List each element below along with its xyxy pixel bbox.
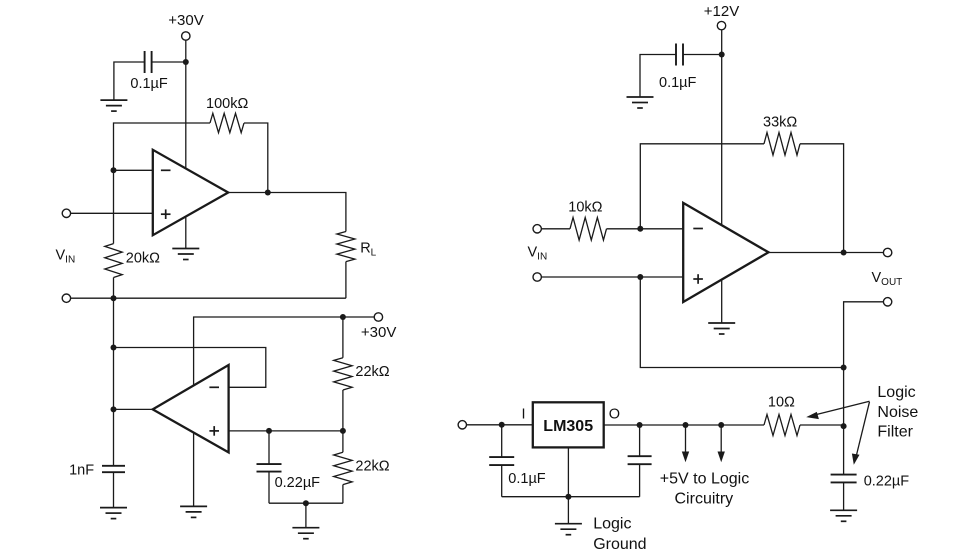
label 0.22uF (left) — [275, 475, 321, 491]
junction +5V arrow 1 — [683, 422, 689, 428]
minus sign A1 — [161, 169, 171, 171]
svg-text:+30V: +30V — [168, 12, 203, 29]
wire A2 output to left vertical — [114, 408, 153, 410]
terminal +30V (A2 supply) — [374, 313, 382, 321]
svg-text:O: O — [609, 407, 620, 423]
label +30V (A2 supply) — [361, 324, 396, 341]
svg-text:Logic: Logic — [593, 515, 631, 532]
junction non-inverting input A3 — [637, 274, 643, 280]
ground (op-amp A1) — [172, 249, 199, 260]
capacitor 0.22uF (left) — [257, 464, 282, 472]
wire feedback 33k right — [800, 144, 844, 253]
label 33kOhm — [763, 114, 797, 130]
minus sign A3 — [693, 228, 703, 230]
label 100kOhm — [206, 96, 248, 112]
wire bottom rail (left) — [71, 297, 346, 299]
junction output cap tap — [637, 422, 643, 428]
svg-text:+30V: +30V — [361, 324, 396, 341]
svg-text:Logic: Logic — [877, 384, 915, 401]
ground (filter cap) — [830, 510, 857, 521]
label 10kOhm — [568, 199, 602, 215]
wire bypass branch (right) — [640, 55, 722, 98]
svg-text:10Ω: 10Ω — [768, 394, 795, 410]
node +30V (left supply) — [168, 12, 203, 29]
junction ground rail — [565, 494, 571, 500]
wire +30V supply rail down to op-amp A1 — [185, 40, 187, 248]
svg-text:22kΩ: 22kΩ — [355, 459, 389, 475]
arrow +5V feed 2 — [718, 425, 725, 462]
wire 10k input left lead — [541, 228, 570, 230]
arrow +5V feed 1 — [682, 425, 689, 462]
svg-text:Filter: Filter — [877, 424, 913, 441]
resistor 33k — [764, 133, 800, 156]
capacitor 1nF — [102, 466, 125, 472]
wire regulator bottom rail — [502, 496, 640, 498]
terminal VOUT lower — [883, 298, 891, 306]
wire 0.22uF filter branch — [843, 426, 845, 510]
wire 1nF to ground — [113, 472, 115, 507]
pin label I — [522, 406, 526, 422]
junction +30V / 22k — [340, 314, 346, 320]
svg-text:22kΩ: 22kΩ — [355, 364, 389, 380]
ground (logic ground) — [555, 524, 582, 535]
label 0.1uF (regulator input) — [508, 471, 546, 487]
wire +12V supply down to op-amp A3 — [721, 30, 723, 323]
label 20kOhm — [126, 250, 160, 266]
wire input cap branch — [501, 425, 503, 497]
wire non-inverting input A1 — [71, 212, 153, 214]
wire non-inverting input A3 — [541, 276, 683, 278]
label RL — [360, 240, 376, 258]
wire +30V feed A2 — [194, 317, 375, 506]
ground (op-amp A3) — [708, 323, 735, 334]
junction inverting input A3 — [637, 226, 643, 232]
label +5V to Logic Circuitry — [660, 470, 749, 507]
label LM305 — [543, 418, 593, 435]
capacitor 0.1uF (left bypass) — [145, 51, 152, 73]
svg-text:1nF: 1nF — [69, 462, 94, 478]
junction input cap tap — [499, 422, 505, 428]
resistor 10 ohm — [764, 415, 800, 436]
wire 0.22uF branch — [268, 431, 270, 503]
terminal VOUT — [883, 248, 891, 256]
svg-text:10kΩ: 10kΩ — [568, 199, 602, 215]
wire 10k to inverting input A3 — [607, 228, 684, 230]
wire feedback right down to output — [244, 123, 268, 193]
label 22kOhm upper — [355, 364, 389, 380]
capacitor 0.1uF (regulator input) — [489, 457, 514, 465]
label VOUT — [872, 270, 903, 288]
terminal VIN upper (left) — [62, 209, 70, 217]
svg-text:20kΩ: 20kΩ — [126, 250, 160, 266]
svg-text:0.1µF: 0.1µF — [130, 76, 168, 92]
svg-text:0.1µF: 0.1µF — [659, 75, 697, 91]
plus sign A3 — [693, 274, 703, 284]
svg-text:+5V to Logic: +5V to Logic — [660, 470, 749, 487]
junction 22k divider — [340, 428, 346, 434]
plus sign A1 — [161, 209, 171, 219]
svg-text:100kΩ: 100kΩ — [206, 96, 248, 112]
terminal VIN lower (right) — [533, 273, 541, 281]
plus sign A2 — [209, 426, 219, 436]
wire feedback 33k left — [640, 144, 764, 230]
wire A2 non-inverting input — [229, 430, 343, 432]
capacitor 0.1uF (right bypass) — [676, 44, 683, 66]
resistor RL — [337, 232, 355, 262]
label Logic Ground — [593, 515, 646, 553]
wire bypass capacitor branch — [114, 62, 186, 100]
wire VOUT lower down to filter node — [844, 302, 884, 426]
junction minus input A1 — [111, 167, 117, 173]
terminal +30V (left supply) — [182, 32, 190, 40]
resistor 22k lower — [334, 452, 352, 484]
resistor 100k feedback — [210, 113, 244, 132]
wire inverting input A1 — [114, 169, 153, 171]
label VIN (right) — [528, 245, 548, 263]
terminal +12V — [717, 21, 725, 29]
arrow to 10 ohm — [806, 401, 869, 419]
wire 10 ohm right lead — [800, 424, 844, 426]
ground (right bypass) — [627, 97, 654, 108]
label VIN (left) — [56, 248, 76, 266]
minus sign A2 — [209, 386, 219, 388]
op-amp A3 — [683, 203, 768, 302]
junction A2 output — [111, 406, 117, 412]
svg-text:Ground: Ground — [593, 536, 646, 553]
junction sense node — [841, 365, 847, 371]
svg-text:0.22µF: 0.22µF — [864, 474, 910, 490]
svg-text:+12V: +12V — [704, 3, 739, 20]
wire output A3 — [769, 252, 884, 254]
junction bottom link — [303, 500, 309, 506]
label 1nF — [69, 462, 94, 478]
op-amp A2 — [153, 365, 229, 452]
label 0.1uF (right bypass) — [659, 75, 697, 91]
ground (left bypass cap) — [100, 100, 127, 111]
wire regulator ground pin — [567, 447, 569, 523]
op-amp A1 — [153, 150, 228, 235]
junction bottom rail — [111, 295, 117, 301]
resistor 20k — [105, 244, 122, 278]
wire sense from + input to output node — [640, 277, 843, 368]
svg-text:I: I — [522, 406, 526, 422]
svg-text:0.1µF: 0.1µF — [508, 471, 546, 487]
node +12V — [704, 3, 739, 20]
arrow to 0.22uF — [852, 402, 870, 465]
junction output A1 — [265, 190, 271, 196]
terminal regulator input — [458, 421, 466, 429]
junction link wire — [111, 345, 117, 351]
wire output A1 to RL — [228, 193, 346, 232]
svg-text:Circuitry: Circuitry — [675, 490, 734, 507]
svg-text:0.22µF: 0.22µF — [275, 475, 321, 491]
wire regulator input — [467, 424, 533, 426]
terminal VIN upper (right) — [533, 225, 541, 233]
svg-text:LM305: LM305 — [543, 418, 593, 435]
junction +5V arrow 2 — [718, 422, 724, 428]
wire 22k divider chain — [342, 317, 344, 503]
svg-text:33kΩ: 33kΩ — [763, 114, 797, 130]
ground (1nF) — [100, 508, 127, 519]
label Logic Noise Filter — [877, 384, 918, 441]
terminal VIN lower (left) — [62, 294, 70, 302]
pin label O — [609, 407, 620, 423]
regulator LM305 — [533, 402, 604, 447]
wire output cap branch — [639, 425, 641, 497]
junction +12V bypass tap — [719, 52, 725, 58]
svg-text:Noise: Noise — [877, 404, 918, 421]
junction +30V bypass tap — [183, 59, 189, 65]
wire feedback left + main left vertical — [114, 123, 211, 466]
label 22kOhm lower — [355, 459, 389, 475]
wire bottom link 0.22uF to 22k — [269, 503, 343, 528]
resistor 22k upper — [334, 358, 352, 390]
label 0.1uF — [130, 76, 168, 92]
label 10Ohm — [768, 394, 795, 410]
wire RL bottom — [345, 262, 347, 299]
wire regulator output row — [604, 424, 764, 426]
resistor 10k — [570, 218, 606, 241]
capacitor 0.22uF (filter) — [831, 475, 857, 483]
junction filter node — [841, 423, 847, 429]
capacitor output (regulator) — [628, 456, 652, 464]
junction output A3 — [841, 250, 847, 256]
label 0.22uF (filter) — [864, 474, 910, 490]
ground (divider) — [292, 528, 319, 539]
ground (op-amp A2) — [180, 506, 207, 517]
wire link to A2 inverting input — [114, 348, 266, 388]
junction 0.22uF tap — [266, 428, 272, 434]
